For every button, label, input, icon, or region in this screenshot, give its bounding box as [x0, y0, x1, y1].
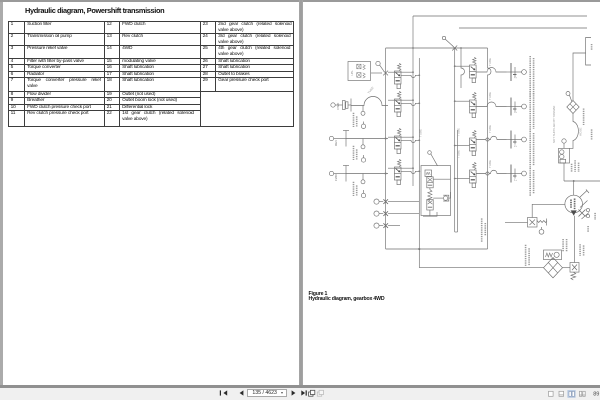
part no text 1st clutch	[0, 0, 1, 1]
svg-text:TUBE: TUBE	[457, 128, 461, 136]
two page layout icon (active)	[568, 390, 575, 397]
FWD clutch top group: port circle	[331, 103, 335, 107]
wire port1 to bus	[388, 201, 419, 203]
solenoid valve left column V4	[394, 159, 401, 184]
svg-text:FWD: FWD	[334, 173, 338, 181]
TUBE label right bus lower	[457, 150, 461, 158]
TUBE label frame row3	[488, 125, 492, 133]
wire: sump line to right	[419, 267, 543, 269]
wire: step down to sump line	[418, 249, 420, 268]
solenoid valve left column V1	[394, 63, 401, 88]
V2 output wire with hop	[401, 103, 419, 105]
4th gear clutch plates	[507, 63, 522, 81]
TUBE label left arc	[367, 86, 375, 95]
pump drive diagonal	[580, 190, 590, 198]
svg-text:FWD: FWD	[336, 102, 340, 110]
relief gauge circle	[539, 227, 544, 234]
node: junction dots on top bus	[412, 47, 462, 49]
4WD clutch plate stack	[335, 99, 351, 112]
wire: vertical bus x419.3	[418, 58, 420, 249]
V3 top port wire	[388, 136, 413, 138]
V2 top port wire	[388, 99, 413, 101]
part text pump suction	[588, 44, 595, 232]
node dot	[385, 173, 387, 175]
wire: vertical bus x454.7	[454, 48, 456, 232]
mod valve outlet wire	[423, 210, 437, 216]
wire: supply bus top horizontal	[386, 47, 488, 49]
last-page button	[301, 390, 305, 395]
label circle 13	[376, 61, 384, 70]
V7 clutch wire with tube joint	[476, 136, 506, 141]
V1 output wire with hop over bus	[401, 75, 419, 77]
check port gauge circles below REV	[361, 139, 366, 163]
label circle 15	[428, 151, 438, 166]
wire: corner drop x488 with tube arc	[488, 48, 492, 249]
part no text FWD port	[354, 182, 357, 196]
gauge circle filter	[566, 92, 572, 102]
piston pilot wire	[433, 179, 450, 198]
modulating valve enclosure box	[421, 166, 451, 216]
1st gear clutch plates	[507, 165, 522, 183]
solenoid valve right column V5	[470, 57, 477, 82]
single page layout icon	[549, 391, 554, 396]
svg-text:HOSE: HOSE	[579, 127, 583, 136]
V1 top port wire	[388, 71, 413, 73]
label circle 9	[442, 36, 452, 45]
solenoid valve right column V6	[470, 92, 477, 117]
first-page button	[223, 390, 227, 395]
HBL priority valve box	[348, 62, 371, 81]
wire: vertical drop x461 with tube arc	[461, 48, 465, 88]
pump outlet triangle	[571, 210, 577, 215]
single page continuous icon	[559, 391, 564, 396]
svg-text:TUBE: TUBE	[488, 160, 492, 168]
wire feed unit down to tee	[563, 163, 565, 181]
wire HBL to shuttle	[371, 72, 382, 74]
hose part text right of filter	[572, 109, 584, 173]
prev-view icon	[309, 390, 315, 396]
prev-page button	[240, 390, 244, 395]
V8 feed wire	[455, 178, 470, 180]
svg-text:TUBE: TUBE	[488, 58, 492, 66]
wire: vertical bus x413	[412, 16, 414, 186]
TUBE label mid bus	[419, 129, 423, 137]
breather unit box over filter	[544, 250, 562, 260]
relief spring right	[537, 219, 547, 226]
TUBE label right bus	[457, 128, 461, 136]
svg-text:2+: 2+	[514, 144, 517, 148]
3rd gear clutch plates	[507, 98, 522, 116]
node dot	[385, 138, 387, 140]
REV clutch plates	[334, 131, 349, 147]
modulating valve upper spool	[427, 177, 433, 188]
wire pump up to tee	[573, 181, 575, 195]
breather 9 cross symbol	[452, 46, 457, 51]
svg-text:REV: REV	[334, 140, 338, 146]
node dot bottom run	[418, 248, 420, 250]
svg-text:TUBE: TUBE	[488, 92, 492, 100]
transmission control valve label	[482, 218, 486, 242]
REV label	[334, 140, 338, 146]
modulating valve spring	[428, 190, 432, 201]
rev port X fitting 1	[383, 199, 388, 204]
2nd gear clutch plates	[507, 131, 522, 149]
feed unit box	[559, 148, 570, 163]
modulating valve lower spool	[427, 200, 433, 211]
pressure relief valve 3	[570, 263, 579, 281]
V6 feed wire	[455, 100, 470, 102]
part no text 2nd clutch	[0, 0, 1, 1]
wire tee to right edge	[564, 180, 600, 182]
transmission control valve boundary	[455, 231, 458, 233]
main pressure relief valve 3b	[528, 218, 538, 228]
REV clutch group: port circle	[329, 136, 333, 140]
port circle 1+	[514, 171, 526, 182]
part no text 3rd clutch	[0, 0, 1, 1]
converter filter diamond top	[567, 101, 579, 114]
svg-text:NOT SUPPLIED BY YANMAR: NOT SUPPLIED BY YANMAR	[552, 106, 556, 143]
V5 feed wire	[455, 65, 470, 67]
V4 top port wire	[388, 167, 413, 169]
next-view icon (disabled)	[317, 390, 323, 396]
V8 clutch wire with tube joint	[476, 170, 506, 175]
wire port3 stub	[388, 225, 400, 227]
check port gauge circles below FWD	[361, 174, 366, 198]
drawing frame outer top line	[413, 15, 587, 17]
node dots right valve feeds	[454, 65, 456, 179]
rev port X fitting 3	[383, 223, 388, 228]
check port gauges below FWD top	[361, 106, 366, 129]
part no text 4th clutch	[530, 56, 533, 196]
radiator bracket	[586, 38, 591, 66]
wire relief inlet left	[505, 221, 528, 223]
svg-text:TUBE: TUBE	[419, 129, 423, 137]
FWD clutch plates	[334, 166, 349, 182]
solenoid valve right column V7	[470, 130, 477, 155]
spool inter wire	[429, 188, 431, 200]
wire with tube hump to valve column	[351, 97, 388, 106]
svg-text:TUBE: TUBE	[488, 125, 492, 133]
FWD label	[334, 173, 338, 181]
pump suction strainer	[579, 201, 590, 220]
NOT SUPPLIED BY YANMAR label	[552, 106, 556, 143]
port circle 29	[374, 223, 383, 228]
gauge circle above feed unit	[562, 139, 566, 149]
wire filter to relief	[563, 267, 571, 269]
rev port X fitting 2	[383, 211, 388, 216]
svg-text:TUBE: TUBE	[457, 150, 461, 158]
wire pump suction down to sump relief	[574, 216, 576, 263]
port circle 2+	[514, 137, 526, 148]
oil pump circle	[565, 195, 583, 213]
node dot tee	[573, 180, 575, 182]
two page continuous icon	[579, 391, 586, 396]
V4 output wire with hop	[401, 171, 419, 173]
modulating valve pilot box	[425, 170, 432, 176]
wire: vertical bus x385.6	[385, 48, 387, 249]
solenoid valve left column V2	[394, 91, 401, 116]
svg-text:89: 89	[593, 391, 599, 397]
solenoid valve right column V8	[470, 162, 477, 187]
shuttle cross at 385	[383, 71, 388, 76]
drawing frame inner top line	[459, 27, 587, 29]
port circle 4+	[514, 70, 526, 80]
V6 clutch wire with tube arc	[476, 102, 506, 107]
V5 clutch wire with tube arc	[476, 68, 506, 73]
solenoid valve left column V3	[394, 128, 401, 153]
port circle 3+	[514, 104, 526, 114]
svg-text:1+: 1+	[514, 178, 517, 182]
FWD clutch bottom group: port circle	[329, 171, 333, 175]
wire: bottom return run	[386, 248, 488, 250]
svg-text:3+: 3+	[514, 110, 517, 114]
port circle 11	[374, 211, 383, 216]
node dots left valve ports	[412, 71, 420, 172]
svg-text:HBL: HBL	[350, 70, 354, 76]
wire FWD to valve	[346, 173, 388, 175]
TUBE label second	[488, 92, 492, 100]
suction filter diamond	[544, 258, 563, 278]
toolbar nav + view icons	[0, 386, 600, 400]
part no text FWD top port	[354, 113, 357, 127]
HOSE label	[579, 127, 583, 136]
V3 output wire with hop	[401, 140, 419, 142]
wire relief to pump	[532, 204, 565, 217]
port circle 10	[374, 199, 383, 204]
hose arc on pump feed	[570, 114, 579, 149]
part text bottom right	[526, 239, 584, 266]
TUBE label top right	[488, 58, 492, 66]
next-page button	[292, 390, 296, 395]
wire port2 to bus	[388, 213, 419, 215]
wire filter up to bracket	[573, 53, 586, 101]
accumulator piston	[433, 195, 449, 201]
svg-text:4+: 4+	[514, 76, 517, 80]
wire: vertical bus x457.5	[457, 130, 459, 232]
TUBE label frame row4	[488, 160, 492, 168]
figure caption	[309, 292, 385, 302]
wire REV to valve	[346, 138, 388, 140]
FWD label	[336, 102, 340, 110]
V7 feed wire	[455, 145, 470, 147]
svg-text:TUBE: TUBE	[367, 86, 375, 95]
part no text REV port	[354, 146, 357, 160]
